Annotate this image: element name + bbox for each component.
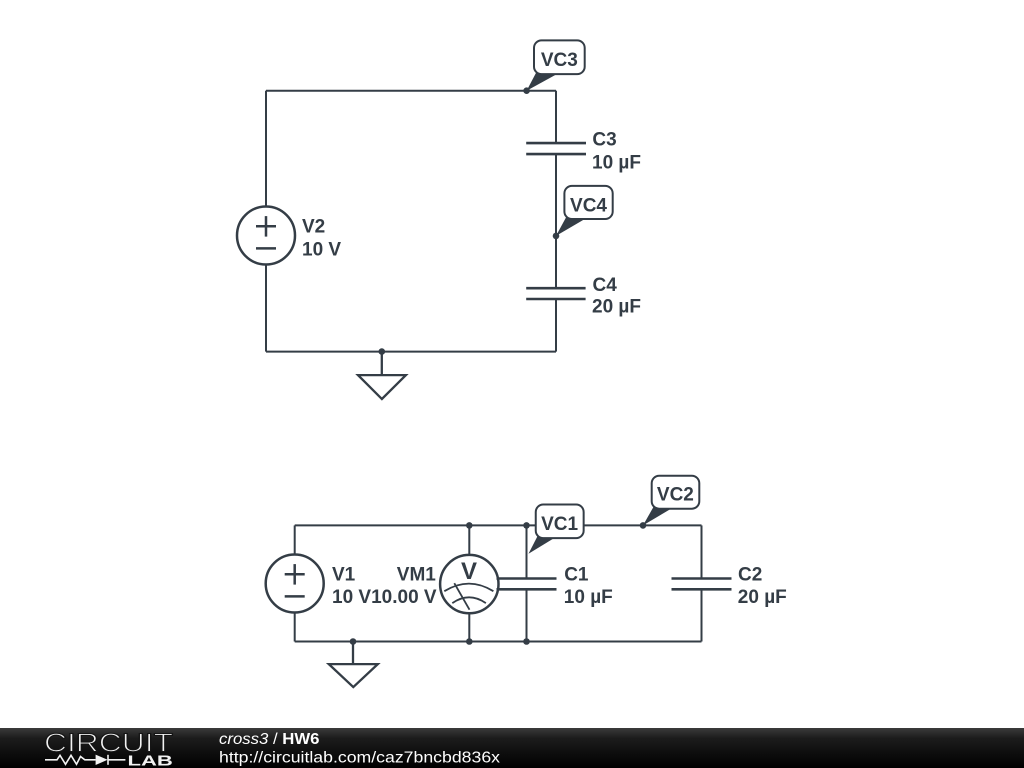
capacitor C1 <box>497 579 557 590</box>
svg-text:20 µF: 20 µF <box>738 587 787 608</box>
flag VC3 <box>527 40 585 90</box>
logo resistor-diode glyph <box>45 755 125 765</box>
svg-text:VM1: VM1 <box>397 565 437 586</box>
node VC2 anchor <box>640 522 647 529</box>
wire below C2 <box>701 589 703 641</box>
svg-text:LAB: LAB <box>128 753 173 768</box>
wire top circuit: right branch above C3 <box>555 91 557 143</box>
svg-text:10 µF: 10 µF <box>592 152 641 173</box>
ground bottom circuit <box>329 642 378 688</box>
svg-text:C2: C2 <box>738 565 762 586</box>
node at VC3 anchor <box>523 87 530 94</box>
voltmeter VM1 <box>440 555 498 613</box>
voltage source V1 <box>266 555 324 613</box>
wire above C1 <box>526 525 528 578</box>
flag VC2 <box>643 476 699 526</box>
wire top circuit: top horizontal <box>266 90 556 92</box>
wire bottom circuit: left branch upper <box>294 525 296 554</box>
node VM1 bottom <box>466 638 473 645</box>
wire top circuit: left branch upper <box>265 91 267 207</box>
svg-text:VC3: VC3 <box>541 50 578 71</box>
svg-text:cross3 / HW6: cross3 / HW6 <box>219 731 320 748</box>
wire top circuit: left branch lower <box>265 265 267 352</box>
svg-text:VC1: VC1 <box>541 514 578 535</box>
node VM1 top <box>466 522 473 529</box>
node ground top circuit <box>379 348 386 355</box>
wire below C4 <box>555 299 557 352</box>
svg-text:C3: C3 <box>592 130 616 151</box>
svg-text:10 V: 10 V <box>302 240 341 261</box>
node C1 top <box>523 522 530 529</box>
capacitor C3 <box>526 143 586 154</box>
svg-text:VC2: VC2 <box>657 485 694 506</box>
svg-text:V2: V2 <box>302 216 325 237</box>
wire below C1 <box>526 589 528 641</box>
svg-text:C4: C4 <box>593 275 618 296</box>
node ground bottom circuit <box>350 638 357 645</box>
flag VC4 <box>556 186 613 236</box>
wire between C3 and C4 <box>555 154 557 288</box>
footer bar <box>0 728 1024 768</box>
flag VC1 <box>529 505 584 554</box>
svg-text:C1: C1 <box>564 565 589 586</box>
wire above VM1 <box>468 525 470 554</box>
svg-text:20 µF: 20 µF <box>592 297 641 318</box>
wire above C2 <box>701 525 703 578</box>
capacitor C2 <box>672 579 732 590</box>
node C1 bottom <box>523 638 530 645</box>
wire bottom circuit: bottom horizontal <box>295 641 702 643</box>
wire below VM1 <box>468 613 470 641</box>
logo diode triangle <box>96 755 108 765</box>
ground top circuit <box>358 352 406 399</box>
svg-text:10 V10.00 V: 10 V10.00 V <box>332 587 437 608</box>
svg-text:10 µF: 10 µF <box>564 587 613 608</box>
node VC4 between C3 and C4 <box>553 233 560 240</box>
svg-text:V: V <box>461 558 477 585</box>
wire bottom circuit: top horizontal <box>295 524 702 526</box>
svg-text:VC4: VC4 <box>570 196 607 217</box>
svg-text:http://circuitlab.com/caz7bncb: http://circuitlab.com/caz7bncbd836x <box>219 749 500 766</box>
wire top circuit: bottom horizontal <box>266 351 556 353</box>
svg-text:V1: V1 <box>332 565 356 586</box>
wire bottom circuit: left branch lower <box>294 613 296 642</box>
capacitor C4 <box>526 288 585 299</box>
voltage source V2 <box>237 207 295 265</box>
